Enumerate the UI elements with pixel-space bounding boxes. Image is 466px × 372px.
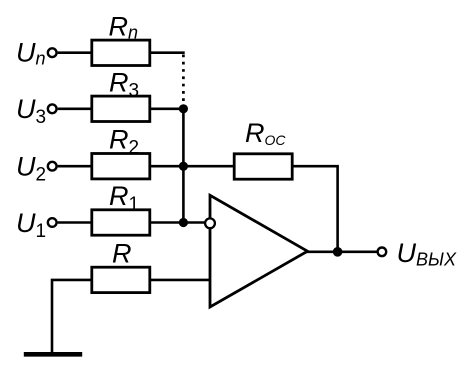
svg-text:R: R bbox=[112, 238, 132, 268]
input terminal U2 bbox=[48, 162, 57, 171]
wire R3 to bus bbox=[150, 108, 185, 111]
wire U2 terminal to R2 bbox=[58, 165, 92, 168]
resistor R (ground leg) bbox=[92, 267, 150, 292]
resistor R2 bbox=[92, 154, 150, 179]
wire Rn to bus corner bbox=[150, 51, 185, 54]
wire R to ground (left + down) bbox=[52, 280, 92, 354]
node junction R1/bus (summing node) bbox=[179, 218, 188, 227]
wire Roc to output node bbox=[292, 166, 337, 249]
wire R1 to op-amp inverting input bbox=[150, 221, 206, 224]
op-amp U1 triangle bbox=[210, 195, 308, 307]
op-amp inverting input circle bbox=[205, 218, 215, 228]
wire U1 terminal to R1 bbox=[58, 221, 92, 224]
ground bbox=[24, 352, 82, 357]
input terminal Un bbox=[48, 48, 57, 57]
resistor R1 bbox=[92, 210, 150, 235]
wire R2 to Roc (through bus) bbox=[150, 165, 235, 168]
resistor R3 bbox=[92, 96, 150, 121]
resistor Roc (feedback) bbox=[234, 154, 292, 179]
wire U3 terminal to R3 bbox=[58, 108, 92, 111]
node output junction bbox=[333, 247, 343, 257]
input terminal U3 bbox=[48, 104, 57, 113]
output terminal bbox=[378, 248, 387, 257]
wire summing bus vertical bbox=[182, 107, 185, 223]
wire R to op-amp non-inverting input bbox=[150, 279, 210, 282]
input terminal U1 bbox=[48, 218, 57, 227]
resistor Rn bbox=[92, 40, 150, 65]
wire op-amp output bbox=[306, 251, 378, 254]
wire Un terminal to Rn bbox=[58, 51, 92, 54]
node junction R2/bus bbox=[179, 162, 188, 171]
node junction R3/bus bbox=[179, 104, 188, 113]
dotted wire (more inputs) bbox=[182, 55, 185, 105]
